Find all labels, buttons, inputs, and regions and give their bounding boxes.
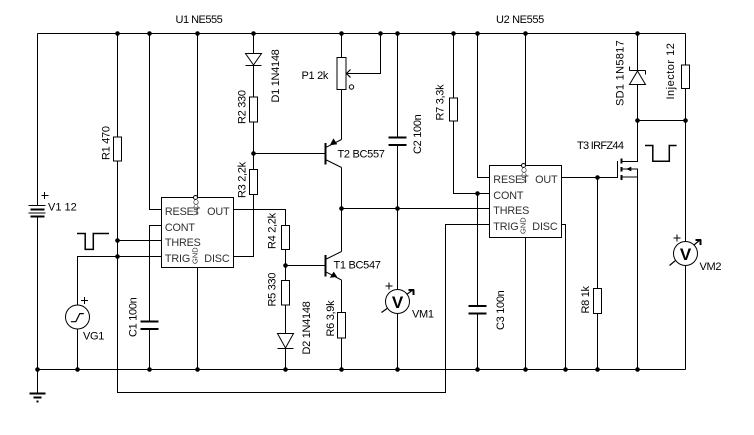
wire: SD1 anode to node	[637, 85, 639, 121]
svg-text:C1 100n: C1 100n	[128, 297, 140, 337]
junction dot SD1-drain node	[635, 118, 640, 123]
wire: U1 OUT to R4	[234, 210, 286, 226]
wire: battery column top	[37, 34, 39, 206]
diode SD1 1N5817 schottky	[630, 67, 646, 85]
resistor R4	[282, 226, 290, 250]
svg-text:SD1 1N5817: SD1 1N5817	[615, 40, 627, 106]
svg-text:THRES: THRES	[493, 205, 529, 217]
svg-text:DISC: DISC	[532, 221, 558, 233]
MOSFET T3 body arrow	[626, 167, 632, 171]
wire: top rail to C2	[397, 34, 399, 138]
svg-text:R2 330: R2 330	[237, 90, 249, 124]
wire: U1 VCC to top rail	[197, 34, 199, 198]
transistor T2 BC557	[325, 138, 341, 167]
wire: R1 top feed	[117, 34, 119, 138]
transistor T1 BC547	[325, 252, 341, 281]
resistor R6	[338, 313, 346, 339]
svg-text:T3 IRFZ44: T3 IRFZ44	[577, 140, 624, 152]
wire: VM1 bottom to rail	[397, 314, 399, 370]
wire: U2 VCC to top rail	[525, 34, 527, 166]
svg-text:V1 12: V1 12	[48, 202, 77, 214]
svg-text:R4 2,2k: R4 2,2k	[267, 212, 279, 249]
wire: T3 drain up to SD1 node	[623, 121, 638, 162]
resistor R3	[250, 170, 258, 195]
svg-text:TRIG: TRIG	[165, 253, 190, 265]
wire: top rail to SD1 cathode	[637, 34, 639, 71]
svg-text:GND: GND	[519, 217, 528, 234]
wire: top rail to P1	[341, 34, 343, 58]
wire: battery column bottom	[37, 217, 39, 370]
wire: VG1 bottom to rail	[77, 329, 79, 370]
svg-text:T1 BC547: T1 BC547	[334, 260, 381, 272]
wire: T3 body connection	[623, 169, 638, 177]
diode D2 1N4148	[278, 334, 294, 349]
VG1 pulse waveform symbol	[77, 234, 109, 250]
IC U2 VCC pin circle	[522, 164, 526, 168]
junction dot THRES net at C2/VM1	[395, 206, 400, 211]
wire: R5 to D2	[285, 305, 287, 334]
wire: R2 to node R2R3	[253, 122, 255, 170]
wire: top rail to D1	[253, 34, 255, 54]
svg-text:R1 470: R1 470	[101, 126, 113, 160]
junction dot node R2-R3-T2base	[251, 151, 256, 156]
svg-text:R8 1k: R8 1k	[580, 285, 592, 313]
resistor R7	[450, 98, 458, 121]
svg-text:VCC: VCC	[520, 167, 529, 183]
resistor R2	[250, 97, 258, 122]
svg-text:V: V	[680, 245, 692, 264]
wire: T2 base wire	[254, 153, 325, 155]
wire: ground stem	[37, 370, 39, 394]
svg-text:CONT: CONT	[493, 190, 524, 202]
wire: R4 to R5 through T1 base node	[285, 250, 287, 281]
wire: T3 source down to rail	[623, 177, 638, 370]
wire: VG1 to U1 TRIG	[78, 257, 162, 306]
wire: U2 GND to rail	[525, 238, 527, 370]
wire: T3 gate wire	[598, 177, 618, 179]
voltmeter VM2	[670, 235, 702, 266]
wire: R7 to U2 CONT	[454, 121, 490, 194]
junction dot injector bottom node	[683, 118, 688, 123]
svg-text:VG1: VG1	[83, 331, 104, 343]
svg-text:R5 330: R5 330	[267, 273, 279, 307]
svg-text:U2 NE555: U2 NE555	[496, 14, 544, 26]
IC U1 VCC pin circle	[194, 196, 198, 200]
wire: U1 GND to rail	[197, 268, 199, 370]
junction dot U1 TRIG at R1 column	[115, 254, 120, 259]
wire: P1 wiper return to top rail	[348, 34, 381, 74]
resistor R1	[114, 137, 122, 161]
wire: T2 collector to T1 collector column	[341, 168, 343, 252]
svg-text:CONT: CONT	[165, 222, 196, 234]
wire: R8 node down to R8	[597, 178, 599, 289]
wire: C3 bottom to rail	[477, 314, 479, 370]
junction dot U2 CONT at C3	[475, 191, 480, 196]
wire: U2 RESET to top rail	[478, 34, 490, 178]
svg-text:C2 100n: C2 100n	[412, 114, 424, 154]
junction dot U1 THRES at R1 column	[115, 238, 120, 243]
svg-text:U1 NE555: U1 NE555	[176, 14, 223, 26]
wire: T1 base wire	[286, 265, 325, 267]
wire: P1 bottom to T2 emitter	[341, 90, 343, 140]
wire: bottom ground rail	[38, 369, 686, 371]
potentiometer P1 body	[337, 58, 346, 90]
wire: U1 CONT to C1	[150, 226, 162, 322]
IC U1 NE555 box	[162, 198, 234, 268]
capacitor C2	[389, 138, 407, 146]
svg-text:D1 1N4148: D1 1N4148	[270, 49, 282, 102]
wire: U1 DISC to R3 bottom	[234, 195, 254, 257]
potentiometer P1 wiper terminal circle	[349, 85, 353, 89]
wire: R8 bottom to rail	[597, 314, 599, 370]
junction dot U2 OUT at R8	[595, 175, 600, 180]
T3 gate pulse waveform symbol	[645, 146, 677, 162]
resistor R8	[594, 289, 602, 314]
svg-text:Injector 12: Injector 12	[665, 43, 677, 100]
wire: C1 bottom to rail	[149, 330, 151, 370]
battery V1	[29, 192, 49, 217]
voltage generator VG1	[66, 297, 90, 329]
wire: U1 RESET to top rail	[150, 34, 162, 210]
junction dot THRES net at collectors	[339, 206, 344, 211]
wire: top rail corner to injector	[685, 34, 687, 66]
wire: R6 bottom to rail	[341, 338, 343, 370]
wire: R1 bottom / U1 trig-thres column / long TRIG net to U2	[118, 161, 490, 393]
MOSFET T3 IRFZ44	[618, 159, 622, 181]
svg-text:DISC: DISC	[204, 253, 230, 265]
svg-text:V: V	[392, 293, 404, 312]
wire: D2 to rail	[285, 349, 287, 370]
capacitor C1	[141, 322, 159, 330]
wire: injector bottom to VM2	[685, 89, 687, 242]
wire: top rail to R7	[453, 34, 455, 99]
wire: U2 OUT to R8 node	[562, 177, 598, 179]
svg-text:THRES: THRES	[165, 237, 201, 249]
svg-text:VM2: VM2	[700, 261, 722, 273]
svg-text:TRIG: TRIG	[493, 221, 518, 233]
wire: SD1 node to injector bottom	[638, 120, 686, 122]
IC U2 NE555 box	[490, 166, 562, 238]
wire: VM2 bottom to rail corner	[685, 266, 687, 370]
ground symbol	[30, 394, 46, 402]
svg-text:D2 1N4148: D2 1N4148	[301, 301, 313, 354]
junction dots top rail	[115, 31, 640, 36]
wire: THRES net to U2	[342, 208, 490, 210]
wire: C2 bottom to THRES net	[397, 146, 399, 209]
svg-text:T2 BC557: T2 BC557	[338, 149, 385, 161]
svg-text:R6 3,9k: R6 3,9k	[325, 300, 337, 337]
svg-text:OUT: OUT	[207, 206, 230, 218]
diode D1 1N4148	[246, 54, 262, 66]
svg-text:VCC: VCC	[192, 199, 201, 215]
junction dot node R4-R5-T1base	[283, 263, 288, 268]
capacitor C3	[469, 306, 487, 314]
voltmeter VM1	[382, 283, 415, 314]
wire: U2 DISC to rail	[562, 225, 566, 370]
wire: THRES net to VM1	[397, 209, 399, 290]
resistor R5	[282, 281, 290, 306]
svg-text:VM1: VM1	[412, 309, 434, 321]
svg-text:C3 100n: C3 100n	[495, 290, 507, 330]
svg-text:R7 3,3k: R7 3,3k	[435, 84, 447, 121]
svg-text:R3 2,2k: R3 2,2k	[237, 161, 249, 198]
wire: top power rail	[38, 33, 686, 35]
svg-text:P1 2k: P1 2k	[302, 70, 329, 82]
wire: U2 CONT node to C3	[477, 194, 479, 306]
wire: T1 emitter to R6	[341, 280, 343, 313]
wire: U1 THRES stub	[118, 240, 162, 242]
potentiometer P1 wiper arrow	[347, 70, 351, 78]
injector load resistor	[682, 65, 690, 89]
wire: D1 to R2	[253, 66, 255, 98]
junction dots bottom rail	[35, 367, 640, 372]
svg-text:OUT: OUT	[535, 174, 558, 186]
svg-text:GND: GND	[191, 247, 200, 264]
